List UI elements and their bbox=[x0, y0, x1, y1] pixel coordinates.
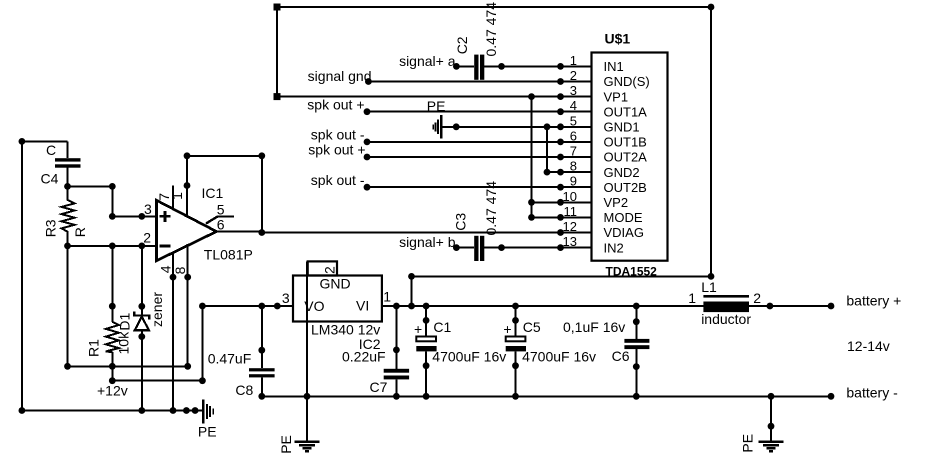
wire battery- PE ground drop bbox=[770, 396, 772, 440]
capacitor C7 top plate bbox=[384, 369, 409, 373]
capacitor C2 left plate bbox=[474, 55, 478, 80]
wire right vertical from top feed down to battery+ node bbox=[710, 7, 712, 276]
node junction C5 branch bbox=[512, 303, 519, 310]
wire spk out + to pin 4 OUT1A bbox=[367, 111, 561, 113]
node junction pin 11 bbox=[557, 214, 564, 221]
svg-text:L1: L1 bbox=[701, 279, 717, 295]
svg-text:3: 3 bbox=[144, 201, 152, 217]
node junction GND2/vertical bbox=[544, 169, 551, 176]
svg-text:C8: C8 bbox=[235, 382, 253, 398]
node corner junction above pin 1 bbox=[184, 152, 191, 159]
op-amp pin 6 output wire bbox=[217, 231, 262, 233]
node junction pin 5 bbox=[557, 123, 564, 130]
wire pin 2 inverting input bbox=[68, 245, 157, 247]
svg-text:IN2: IN2 bbox=[604, 240, 624, 255]
node junction C8 pin top bbox=[258, 347, 265, 354]
node junction C8 on ground rail bbox=[258, 393, 265, 400]
svg-text:VI: VI bbox=[356, 297, 369, 313]
svg-text:battery -: battery - bbox=[846, 385, 898, 401]
svg-text:R1: R1 bbox=[86, 339, 102, 357]
wire C7 top lead bbox=[395, 306, 397, 369]
wire pin 4 down to PE ground rail bbox=[172, 277, 174, 410]
node junction on +input wire bbox=[138, 213, 145, 220]
node junction pin 9 bbox=[557, 184, 564, 191]
svg-text:GND2: GND2 bbox=[604, 165, 640, 180]
op-amp pin 7 stub (V+) bbox=[172, 186, 174, 210]
op-amp minus input mark bbox=[160, 244, 171, 247]
wire VP1 net to pin 3 bbox=[277, 96, 561, 98]
U$1 pin 9 stub bbox=[561, 186, 592, 188]
svg-text:12: 12 bbox=[563, 219, 577, 234]
capacitor C1 negative plate (filled) bbox=[416, 346, 436, 351]
wire D1 top lead from -input wire bbox=[141, 246, 143, 315]
wire C7 bottom lead bbox=[395, 379, 397, 396]
zener diode D1 cathode bar with hooks bbox=[134, 312, 149, 320]
svg-text:OUT2B: OUT2B bbox=[604, 180, 647, 195]
svg-text:C: C bbox=[46, 142, 56, 158]
wire vertical GND1-GND2 link bbox=[546, 127, 548, 172]
node junction VP2/vertical bbox=[528, 199, 535, 206]
node corner junction at 411.5,276.4 bbox=[408, 273, 415, 280]
node junction pin 12 bbox=[557, 229, 564, 236]
svg-text:4: 4 bbox=[570, 98, 577, 113]
svg-text:OUT1B: OUT1B bbox=[604, 135, 647, 150]
node junction C1 pin top bbox=[423, 317, 430, 324]
svg-text:1: 1 bbox=[169, 192, 185, 200]
node junction C8 branch on output wire bbox=[258, 303, 265, 310]
svg-text:4: 4 bbox=[158, 265, 174, 273]
svg-text:6: 6 bbox=[217, 217, 225, 233]
node junction C5 pin bottom bbox=[512, 362, 519, 369]
IC U$1 TDA1552 body box bbox=[592, 53, 668, 261]
node junction C6 pin top bbox=[633, 318, 640, 325]
resistor R3 zigzag bbox=[62, 186, 75, 246]
svg-text:PE: PE bbox=[427, 98, 446, 114]
svg-text:spk out -: spk out - bbox=[311, 172, 365, 188]
U$1 pin 2 stub bbox=[561, 81, 592, 83]
node spk out + second wire start bbox=[364, 154, 371, 161]
svg-text:OUT1A: OUT1A bbox=[604, 104, 648, 119]
wire C3 to pin 13 IN2 bbox=[484, 247, 560, 249]
op-amp plus input mark bbox=[160, 215, 171, 218]
svg-text:5: 5 bbox=[570, 113, 577, 128]
wire regulator output VO to +12v riser bbox=[202, 305, 293, 307]
wire battery+ top horizontal feed to VP1 bbox=[277, 6, 711, 8]
svg-text:battery +: battery + bbox=[846, 293, 901, 309]
wire C6 bottom lead bbox=[635, 349, 637, 396]
svg-text:IN1: IN1 bbox=[604, 59, 624, 74]
wire R1 top lead from -input wire bbox=[111, 246, 113, 322]
wire C1 bottom lead bbox=[425, 351, 427, 396]
svg-text:1: 1 bbox=[383, 289, 391, 305]
node junction (stub) on ground rail bbox=[183, 407, 190, 414]
svg-text:10: 10 bbox=[563, 189, 577, 204]
node junction pin 8 end bbox=[184, 274, 191, 281]
node junction C5 pin top bbox=[512, 317, 519, 324]
node spk out + wire start bbox=[364, 108, 371, 115]
node terminal battery- end bbox=[828, 393, 835, 400]
wire vertical x=411.5 down to battery+ rail bbox=[411, 276, 413, 306]
svg-text:+12v: +12v bbox=[97, 383, 128, 399]
node junction on output wire near pin 3 bbox=[274, 303, 281, 310]
svg-text:11: 11 bbox=[564, 204, 578, 219]
U$1 pin 11 stub bbox=[561, 216, 592, 218]
node junction pin 3 bbox=[557, 93, 564, 100]
svg-text:13: 13 bbox=[563, 234, 577, 249]
wire horizontal battery+ link (strikes TDA1552 value text) bbox=[412, 275, 712, 277]
capacitor C4 top plate bbox=[55, 158, 81, 161]
wire MODE stub to pin 11 bbox=[532, 216, 561, 218]
capacitor C4 bottom plate bbox=[55, 164, 81, 167]
svg-text:6: 6 bbox=[570, 128, 577, 143]
wire D1 bottom lead down to PE ground rail bbox=[141, 330, 143, 410]
node junction R1 branch on -input wire bbox=[109, 243, 116, 250]
node junction pin 1 bbox=[557, 63, 564, 70]
wire left vertical from top feed down to VP1 net bbox=[276, 7, 278, 97]
wire +12v rail bbox=[112, 380, 202, 382]
svg-text:spk out -: spk out - bbox=[311, 126, 365, 142]
node junction D1 pin top bbox=[138, 303, 145, 310]
svg-text:C4: C4 bbox=[41, 170, 59, 186]
svg-text:7: 7 bbox=[570, 144, 577, 159]
wire spk out - to pin 9 OUT2B bbox=[367, 186, 561, 188]
svg-text:8: 8 bbox=[172, 266, 188, 274]
capacitor C6 top plate bbox=[624, 339, 649, 343]
node junction pin 13 bbox=[557, 244, 564, 251]
svg-text:C5: C5 bbox=[523, 319, 541, 335]
wire signal gnd to pin 2 GND(S) bbox=[368, 81, 560, 83]
svg-text:D1: D1 bbox=[117, 312, 133, 330]
wire GND2 stub to pin 8 bbox=[547, 171, 561, 173]
wire regulator input VI to inductor L1 bbox=[382, 305, 704, 307]
svg-text:0.47 474: 0.47 474 bbox=[483, 2, 499, 57]
svg-text:R3: R3 bbox=[43, 219, 59, 237]
op-amp IC1 triangle body bbox=[157, 200, 217, 260]
node junction D1 branch on -input wire bbox=[138, 243, 145, 250]
node junction right vertical meets battery+ link bbox=[708, 273, 715, 280]
node junction regulator GND on ground rail bbox=[304, 393, 311, 400]
node junction corner riser meets +input wire bbox=[109, 213, 116, 220]
node corner junction at 112.3,186.4 bbox=[109, 183, 116, 190]
wire signal+ b to C3 left plate bbox=[456, 247, 474, 249]
earth ground symbol (regulator) bar 3 bbox=[302, 447, 311, 449]
op-amp pin 5 lead (offset null, diagonal out of hypotenuse) bbox=[206, 217, 234, 224]
wire spk out - to pin 6 OUT1B bbox=[367, 141, 561, 143]
wire VP2 stub to pin 10 bbox=[532, 201, 561, 203]
node junction C5 on ground rail bbox=[512, 393, 519, 400]
svg-text:0.47uF: 0.47uF bbox=[208, 351, 252, 367]
svg-text:4700uF 16v: 4700uF 16v bbox=[522, 349, 596, 365]
svg-text:OUT2A: OUT2A bbox=[604, 150, 648, 165]
earth ground symbol (battery-) bar 1 bbox=[758, 441, 783, 443]
svg-text:GND(S): GND(S) bbox=[604, 74, 650, 89]
node junction L1 pin 2 bbox=[767, 303, 774, 310]
U$1 pin 4 stub bbox=[561, 111, 592, 113]
node junction pin 7 bbox=[557, 154, 564, 161]
node junction MODE/vertical bbox=[528, 214, 535, 221]
svg-text:GND1: GND1 bbox=[604, 120, 640, 135]
earth ground symbol (battery-) bar 4 bbox=[769, 450, 773, 452]
svg-text:VO: VO bbox=[304, 298, 324, 314]
earth ground symbol (regulator) bar 4 bbox=[305, 450, 309, 452]
capacitor C3 left plate bbox=[474, 236, 478, 261]
node junction C6 on ground rail bbox=[633, 393, 640, 400]
U$1 pin 1 stub bbox=[561, 65, 592, 67]
node junction D1 lead on ground rail bbox=[138, 407, 145, 414]
node junction pin 6 bbox=[557, 139, 564, 146]
node junction bias rail right end at pin 8 lead bbox=[184, 363, 191, 370]
wire PE ground rail bottom-left bbox=[22, 410, 202, 412]
svg-text:TL081P: TL081P bbox=[204, 246, 253, 262]
svg-text:3: 3 bbox=[282, 290, 290, 306]
wire C8 bottom lead to ground rail bbox=[261, 377, 263, 396]
node junction bias rail left end bbox=[64, 363, 71, 370]
wire pin 1 up and over to output riser bbox=[187, 156, 262, 233]
U$1 pin 3 stub bbox=[561, 96, 592, 98]
svg-text:2: 2 bbox=[143, 229, 151, 245]
capacitor C5 negative plate (filled) bbox=[506, 346, 526, 351]
node junction pin 4 bbox=[557, 108, 564, 115]
svg-text:TDA1552: TDA1552 bbox=[606, 265, 658, 279]
ground PE symbol bar 4 bbox=[432, 124, 434, 129]
wire L1 to battery+ terminal bbox=[749, 305, 831, 307]
svg-text:3: 3 bbox=[570, 83, 577, 98]
svg-text:C6: C6 bbox=[612, 348, 630, 364]
node junction C1 on ground rail bbox=[423, 393, 430, 400]
node junction C6 branch bbox=[633, 303, 640, 310]
svg-text:spk out +: spk out + bbox=[307, 96, 364, 112]
wire left border vertical bbox=[21, 141, 23, 410]
capacitor C3 right plate bbox=[480, 236, 484, 261]
ground PE symbol bar 3 bbox=[435, 122, 437, 131]
U$1 pin 8 stub bbox=[561, 171, 592, 173]
node junction +12v riser top bbox=[199, 303, 206, 310]
node junction C1 branch bbox=[423, 303, 430, 310]
wire op-amp output to pin 12 VDIAG bbox=[262, 232, 561, 234]
svg-text:0.47 474: 0.47 474 bbox=[483, 181, 499, 236]
node junction PE wire bbox=[453, 123, 460, 130]
wire bias rail R3-to-pin8 bbox=[68, 365, 188, 367]
node junction right of C2 bbox=[498, 63, 505, 70]
svg-text:+: + bbox=[414, 321, 422, 337]
ground PE symbol bar 2 bbox=[437, 120, 439, 134]
node corner junction top of output riser bbox=[258, 152, 265, 159]
U$1 pin 5 stub bbox=[561, 126, 592, 128]
svg-text:PE: PE bbox=[198, 424, 217, 440]
wire C6 top lead bbox=[635, 306, 637, 339]
svg-text:IC1: IC1 bbox=[202, 185, 224, 201]
wire PE ground to pin 5 GND1 bbox=[442, 126, 561, 128]
svg-text:C3: C3 bbox=[453, 213, 469, 231]
node corner top-left (square junction) bbox=[274, 4, 281, 11]
node spk out - second wire start bbox=[364, 184, 371, 191]
node junction battery+ link riser bbox=[408, 303, 415, 310]
node junction on PE drop bbox=[768, 423, 775, 430]
earth ground symbol (regulator) bar 1 bbox=[294, 441, 319, 443]
svg-text:VDIAG: VDIAG bbox=[604, 225, 644, 240]
svg-text:MODE: MODE bbox=[604, 210, 643, 225]
svg-text:spk out +: spk out + bbox=[308, 142, 365, 158]
wire top-left horizontal to C4 branch bbox=[22, 140, 68, 142]
svg-text:2: 2 bbox=[570, 68, 577, 83]
earth ground symbol (regulator) bar 2 bbox=[299, 444, 315, 446]
node junction R1 lead crosses bias rail bbox=[109, 363, 116, 370]
svg-text:2: 2 bbox=[321, 266, 337, 274]
capacitor C7 bottom plate bbox=[384, 376, 409, 380]
node junction pin 1 top bbox=[184, 182, 191, 189]
wire ground rail battery- bbox=[262, 395, 831, 397]
U$1 pin 7 stub bbox=[561, 156, 592, 158]
earth ground symbol (battery-) bar 2 bbox=[763, 444, 779, 446]
node junction pin 8 bbox=[557, 169, 564, 176]
ground PE symbol (bottom-left) bar 4 bbox=[212, 409, 214, 415]
svg-text:12-14v: 12-14v bbox=[847, 338, 890, 354]
node corner junction top-left bbox=[19, 138, 26, 145]
U$1 pin 10 stub bbox=[561, 201, 592, 203]
node signal gnd wire start bbox=[365, 78, 372, 85]
svg-text:inductor: inductor bbox=[701, 311, 751, 327]
node junction PE drop on ground rail bbox=[768, 393, 775, 400]
svg-text:LM340 12v: LM340 12v bbox=[311, 321, 380, 337]
wire R1 bottom lead through bias rail to +12v rail bbox=[111, 352, 113, 381]
node junction pin 10 bbox=[557, 199, 564, 206]
ground PE symbol (bottom-left) bar 2 bbox=[206, 404, 208, 419]
wire R3 bottom branch down to bias rail bbox=[67, 246, 69, 366]
node junction pin 4 lead on ground rail bbox=[170, 407, 177, 414]
svg-text:2: 2 bbox=[753, 290, 761, 306]
svg-text:signal+ a: signal+ a bbox=[399, 53, 456, 69]
inductor L1 top bar bbox=[703, 295, 749, 298]
node corner junction bottom-left bbox=[19, 407, 26, 414]
svg-text:VP2: VP2 bbox=[604, 195, 629, 210]
svg-text:PE: PE bbox=[740, 434, 756, 453]
svg-text:8: 8 bbox=[570, 159, 577, 174]
zener diode D1 triangle bbox=[135, 317, 149, 331]
svg-text:signal gnd: signal gnd bbox=[308, 68, 372, 84]
U$1 pin 13 stub bbox=[561, 247, 592, 249]
node junction VP1/vertical bbox=[528, 93, 535, 100]
wire C5 top lead bbox=[515, 306, 517, 337]
node signal+ a wire start bbox=[453, 63, 460, 70]
node signal+ b wire start bbox=[453, 244, 460, 251]
U$1 pin 12 stub bbox=[561, 232, 592, 234]
svg-text:PE: PE bbox=[278, 435, 294, 454]
wire C8 top lead from regulator output bbox=[261, 306, 263, 368]
svg-text:0,1uF 16v: 0,1uF 16v bbox=[563, 319, 625, 335]
svg-text:9: 9 bbox=[570, 174, 577, 189]
capacitor C2 right plate bbox=[480, 55, 484, 80]
svg-text:0.22uF: 0.22uF bbox=[342, 349, 386, 365]
capacitor C1 positive plate (hollow) bbox=[416, 337, 436, 342]
svg-text:C2: C2 bbox=[454, 36, 470, 54]
node top-right corner junction bbox=[708, 4, 715, 11]
op-amp pin 1 stub (offset null) bbox=[186, 186, 188, 217]
svg-text:signal+ b: signal+ b bbox=[399, 234, 456, 250]
svg-text:C1: C1 bbox=[433, 319, 451, 335]
node junction R1 pin top bbox=[109, 303, 116, 310]
wire pin 3 non-inverting input bbox=[112, 215, 156, 217]
node junction pin 2 bbox=[557, 78, 564, 85]
wire signal+ a to C2 left plate bbox=[456, 65, 474, 67]
regulator GND pin line down to earth bbox=[306, 261, 308, 440]
regulator IC2 LM340 body box bbox=[293, 276, 382, 322]
wire pin 8 down to bias rail bbox=[187, 277, 189, 366]
wire spk out + to pin 7 OUT2A bbox=[367, 156, 561, 158]
svg-text:GND: GND bbox=[320, 276, 351, 292]
svg-text:1: 1 bbox=[688, 290, 696, 306]
node junction pin 4 end bbox=[170, 274, 177, 281]
node junction C6 pin bottom bbox=[633, 363, 640, 370]
svg-text:1: 1 bbox=[570, 53, 577, 68]
wire C1 top lead bbox=[425, 306, 427, 337]
node junction D1 pin bottom bbox=[138, 333, 145, 340]
op-amp pin 4 stub (V-) bbox=[172, 252, 174, 277]
svg-text:+: + bbox=[503, 321, 511, 337]
wire C4 bottom lead to junction bbox=[67, 168, 69, 187]
node spk out - wire start bbox=[364, 139, 371, 146]
node terminal battery+ end bbox=[828, 303, 835, 310]
svg-text:4700uF 16v: 4700uF 16v bbox=[432, 349, 506, 365]
regulator IC2 GND tab box bbox=[308, 261, 337, 275]
wire vertical VP1-VP2-MODE bus bbox=[531, 97, 533, 218]
wire C2 to pin 1 IN1 bbox=[484, 65, 560, 67]
node junction output riser meets VDIAG wire bbox=[258, 229, 265, 236]
wire C4 top lead bbox=[67, 141, 69, 158]
node junction right of C3 bbox=[498, 244, 505, 251]
svg-text:U$1: U$1 bbox=[605, 31, 631, 47]
node junction C7 pin top bbox=[393, 347, 400, 354]
capacitor C6 bottom plate bbox=[624, 345, 649, 349]
capacitor C5 positive plate (hollow) bbox=[506, 337, 526, 342]
earth ground symbol (battery-) bar 3 bbox=[766, 447, 775, 449]
node junction R1 lead on +12v rail bbox=[109, 377, 116, 384]
wire C5 bottom lead bbox=[515, 351, 517, 396]
svg-text:10k: 10k bbox=[115, 331, 131, 355]
svg-text:5: 5 bbox=[217, 202, 225, 218]
node junction C7 on ground rail bbox=[393, 393, 400, 400]
svg-text:R: R bbox=[72, 227, 88, 237]
node junction C1 pin bottom bbox=[423, 362, 430, 369]
node junction C7 branch bbox=[393, 303, 400, 310]
node junction GND1/vertical bbox=[544, 123, 551, 130]
ground PE symbol (bottom-left) tall bar bbox=[202, 400, 205, 424]
node junction C4/R3/feedback bbox=[64, 183, 71, 190]
node VP1 wire start (square junction) bbox=[274, 93, 281, 100]
inductor L1 body (filled) bbox=[703, 302, 749, 313]
node junction +12v rail right end bbox=[199, 377, 206, 384]
wire +12v riser to regulator output bbox=[201, 306, 203, 381]
capacitor C8 top plate bbox=[249, 368, 275, 371]
svg-text:VP1: VP1 bbox=[604, 89, 629, 104]
ground PE symbol (top, at GND1) tall bar bbox=[440, 115, 443, 138]
ground PE symbol (bottom-left) bar 3 bbox=[209, 406, 211, 417]
resistor R1 zigzag bbox=[106, 322, 119, 352]
op-amp pin 8 stub (NC) bbox=[187, 244, 189, 277]
wire junction right then down to +input wire bbox=[68, 186, 113, 216]
node junction R3 bottom on -input wire bbox=[64, 243, 71, 250]
U$1 pin 6 stub bbox=[561, 141, 592, 143]
svg-text:C7: C7 bbox=[370, 379, 388, 395]
node junction PE pin on ground rail bbox=[192, 407, 199, 414]
capacitor C8 bottom plate bbox=[249, 374, 275, 377]
svg-text:zener: zener bbox=[149, 292, 165, 327]
